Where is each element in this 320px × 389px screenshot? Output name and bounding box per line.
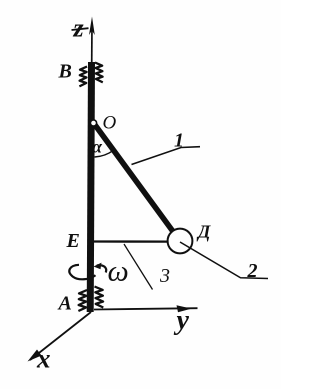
svg-text:1: 1 (174, 130, 184, 152)
leader line for label 2 (180, 242, 268, 279)
svg-text:y: y (174, 305, 190, 336)
y-axis line (94, 308, 198, 309)
svg-text:B: B (58, 61, 72, 83)
leader line for label 1 (132, 147, 201, 165)
shaft AB (rod 3) (90, 62, 91, 312)
link ED horizontal line (93, 240, 169, 242)
z label strike (72, 28, 89, 30)
y-axis arrowhead (177, 305, 192, 312)
svg-text:x: x (36, 344, 51, 374)
leader line for label 3 (124, 244, 153, 290)
pivot circle at O (90, 120, 96, 126)
bearing A right hatch (95, 287, 104, 308)
z-axis arrowhead (89, 17, 95, 36)
svg-text:ω: ω (108, 255, 129, 288)
svg-text:O: O (103, 113, 117, 134)
svg-text:2: 2 (247, 260, 258, 282)
svg-text:E: E (66, 230, 80, 252)
bearing B right hatch (95, 63, 103, 83)
svg-text:α: α (92, 137, 103, 157)
svg-text:A: A (57, 293, 72, 315)
svg-text:3: 3 (159, 265, 170, 287)
omega rotation arrow right hook (97, 265, 106, 272)
ball D circle (168, 229, 193, 254)
bearing B left hatch (79, 67, 87, 87)
wire z-axis thin line (91, 24, 93, 65)
omega arrowhead (94, 263, 102, 270)
bearing A left hatch (78, 290, 87, 311)
x-axis arrowhead (28, 350, 42, 362)
rod 1 from O to ball D (93, 122, 174, 232)
svg-text:Д: Д (196, 222, 211, 242)
x-axis line (30, 312, 91, 360)
angle alpha arc (95, 150, 114, 157)
omega rotation arrow left arc (69, 265, 95, 280)
